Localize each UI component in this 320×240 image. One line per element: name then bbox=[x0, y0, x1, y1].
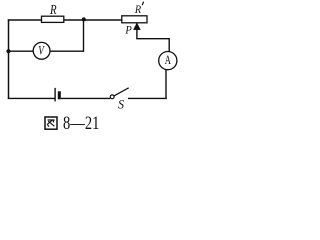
wire: voltmeter branch horizontal bbox=[9, 50, 84, 52]
resistor R (box) bbox=[42, 16, 64, 22]
battery short thick plate (negative) bbox=[58, 91, 61, 99]
node: junction dot of R / rheostat / voltmeter branch bbox=[82, 17, 86, 21]
battery long plate (positive) bbox=[54, 88, 56, 102]
switch S lever (open blade) bbox=[114, 88, 129, 96]
wire: junction down to voltmeter branch bbox=[83, 19, 85, 52]
node: junction dot on left wire bbox=[6, 49, 10, 53]
svg-text:V: V bbox=[38, 44, 45, 58]
switch S pivot (small circle) bbox=[110, 95, 114, 99]
wire: slider down, right, and down to ammeter bbox=[137, 23, 169, 52]
voltmeter V (circle) bbox=[33, 42, 50, 59]
svg-text:R: R bbox=[49, 2, 56, 17]
svg-text:8—21: 8—21 bbox=[63, 113, 99, 134]
wire: bottom left, corner to battery bbox=[8, 97, 55, 99]
caption hanzi 图 (drawn strokes) bbox=[45, 117, 57, 129]
rheostat R' (box) bbox=[122, 16, 147, 23]
wire: battery to switch bbox=[61, 97, 111, 99]
svg-text:R: R bbox=[134, 2, 142, 16]
svg-text:P: P bbox=[125, 23, 133, 37]
wire: bottom right segment, switch to corner bbox=[128, 97, 167, 99]
label R' prime mark bbox=[142, 2, 143, 6]
wire: ammeter bottom down to bottom wire corner bbox=[165, 70, 167, 100]
wire: left vertical (top-left corner down to bottom wire) bbox=[8, 19, 10, 99]
ammeter A (circle) bbox=[159, 52, 177, 70]
svg-text:A: A bbox=[165, 53, 171, 67]
svg-text:S: S bbox=[118, 98, 124, 112]
wire: resistor R to junction node to rheostat R' bbox=[63, 19, 123, 21]
rheostat slider arrow (wiper) bbox=[134, 23, 141, 29]
wire: top horizontal, corner to resistor R bbox=[8, 19, 43, 21]
